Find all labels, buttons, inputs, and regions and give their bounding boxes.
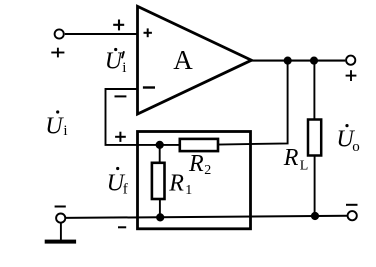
op-amp A (amplifier triangle) — [138, 6, 252, 114]
label Uf (feedback voltage) — [107, 167, 128, 198]
wire: R1 bottom lead — [159, 199, 161, 218]
input terminal (top left) — [55, 29, 64, 38]
junction: output node to RL — [310, 57, 318, 65]
wire: non-inverting input wire from input terminal to op-amp — [65, 33, 137, 35]
junction: feedback input node at R1 top — [156, 141, 164, 149]
minus polarity mark below inverting input wire — [115, 95, 127, 97]
op-amp plus pin mark — [144, 32, 152, 34]
wire: RL bottom lead down to bottom rail — [314, 155, 316, 216]
plus polarity mark above non-inverting input wire — [113, 20, 124, 31]
svg-text:o: o — [352, 139, 360, 155]
junction: output node to feedback — [284, 57, 292, 65]
wire: feedback wire from output node down to R2 — [218, 60, 288, 144]
svg-text:A: A — [173, 45, 193, 75]
svg-text:i: i — [122, 60, 126, 76]
svg-text:R: R — [283, 145, 299, 171]
op-amp minus pin mark — [143, 86, 155, 88]
svg-text:1: 1 — [185, 183, 192, 198]
svg-text:U: U — [105, 48, 124, 74]
wire: bottom common rail — [66, 216, 348, 218]
svg-text:i: i — [63, 123, 67, 139]
minus polarity bar above bottom-left terminal — [55, 206, 66, 208]
junction: RL bottom on bottom rail — [311, 212, 319, 220]
resistor R2 — [180, 139, 218, 178]
minus polarity bar above bottom-right terminal — [346, 204, 358, 206]
svg-text:2: 2 — [204, 163, 211, 178]
resistor R1 — [152, 163, 192, 199]
wire: inverting input wire from op-amp down to feedback network — [106, 89, 181, 145]
svg-text:R: R — [188, 151, 204, 177]
svg-text:L: L — [300, 158, 309, 173]
label Ui' (differential input voltage) — [105, 48, 127, 76]
ground — [45, 223, 76, 243]
plus polarity at output terminal — [346, 70, 357, 81]
minus polarity at feedback network bottom — [118, 226, 126, 228]
resistor RL (load) — [283, 120, 321, 174]
feedback network box — [138, 132, 251, 229]
svg-text:R: R — [168, 171, 184, 197]
label Ui (input voltage) — [45, 110, 67, 139]
bottom-right terminal — [348, 211, 357, 220]
plus polarity at input terminal — [51, 48, 64, 58]
svg-text:f: f — [123, 182, 128, 198]
junction: R1 bottom on bottom rail — [156, 213, 164, 221]
wire: op-amp output wire to output terminal — [251, 60, 345, 62]
label Uo (output voltage) — [336, 124, 359, 155]
svg-text:U: U — [45, 114, 64, 140]
wire: R1 top lead — [159, 145, 161, 163]
output terminal (top right) — [346, 56, 355, 65]
bottom-left terminal — [56, 214, 65, 223]
wire: load branch from output wire down to RL — [313, 60, 315, 119]
plus polarity at feedback network input — [115, 132, 126, 142]
